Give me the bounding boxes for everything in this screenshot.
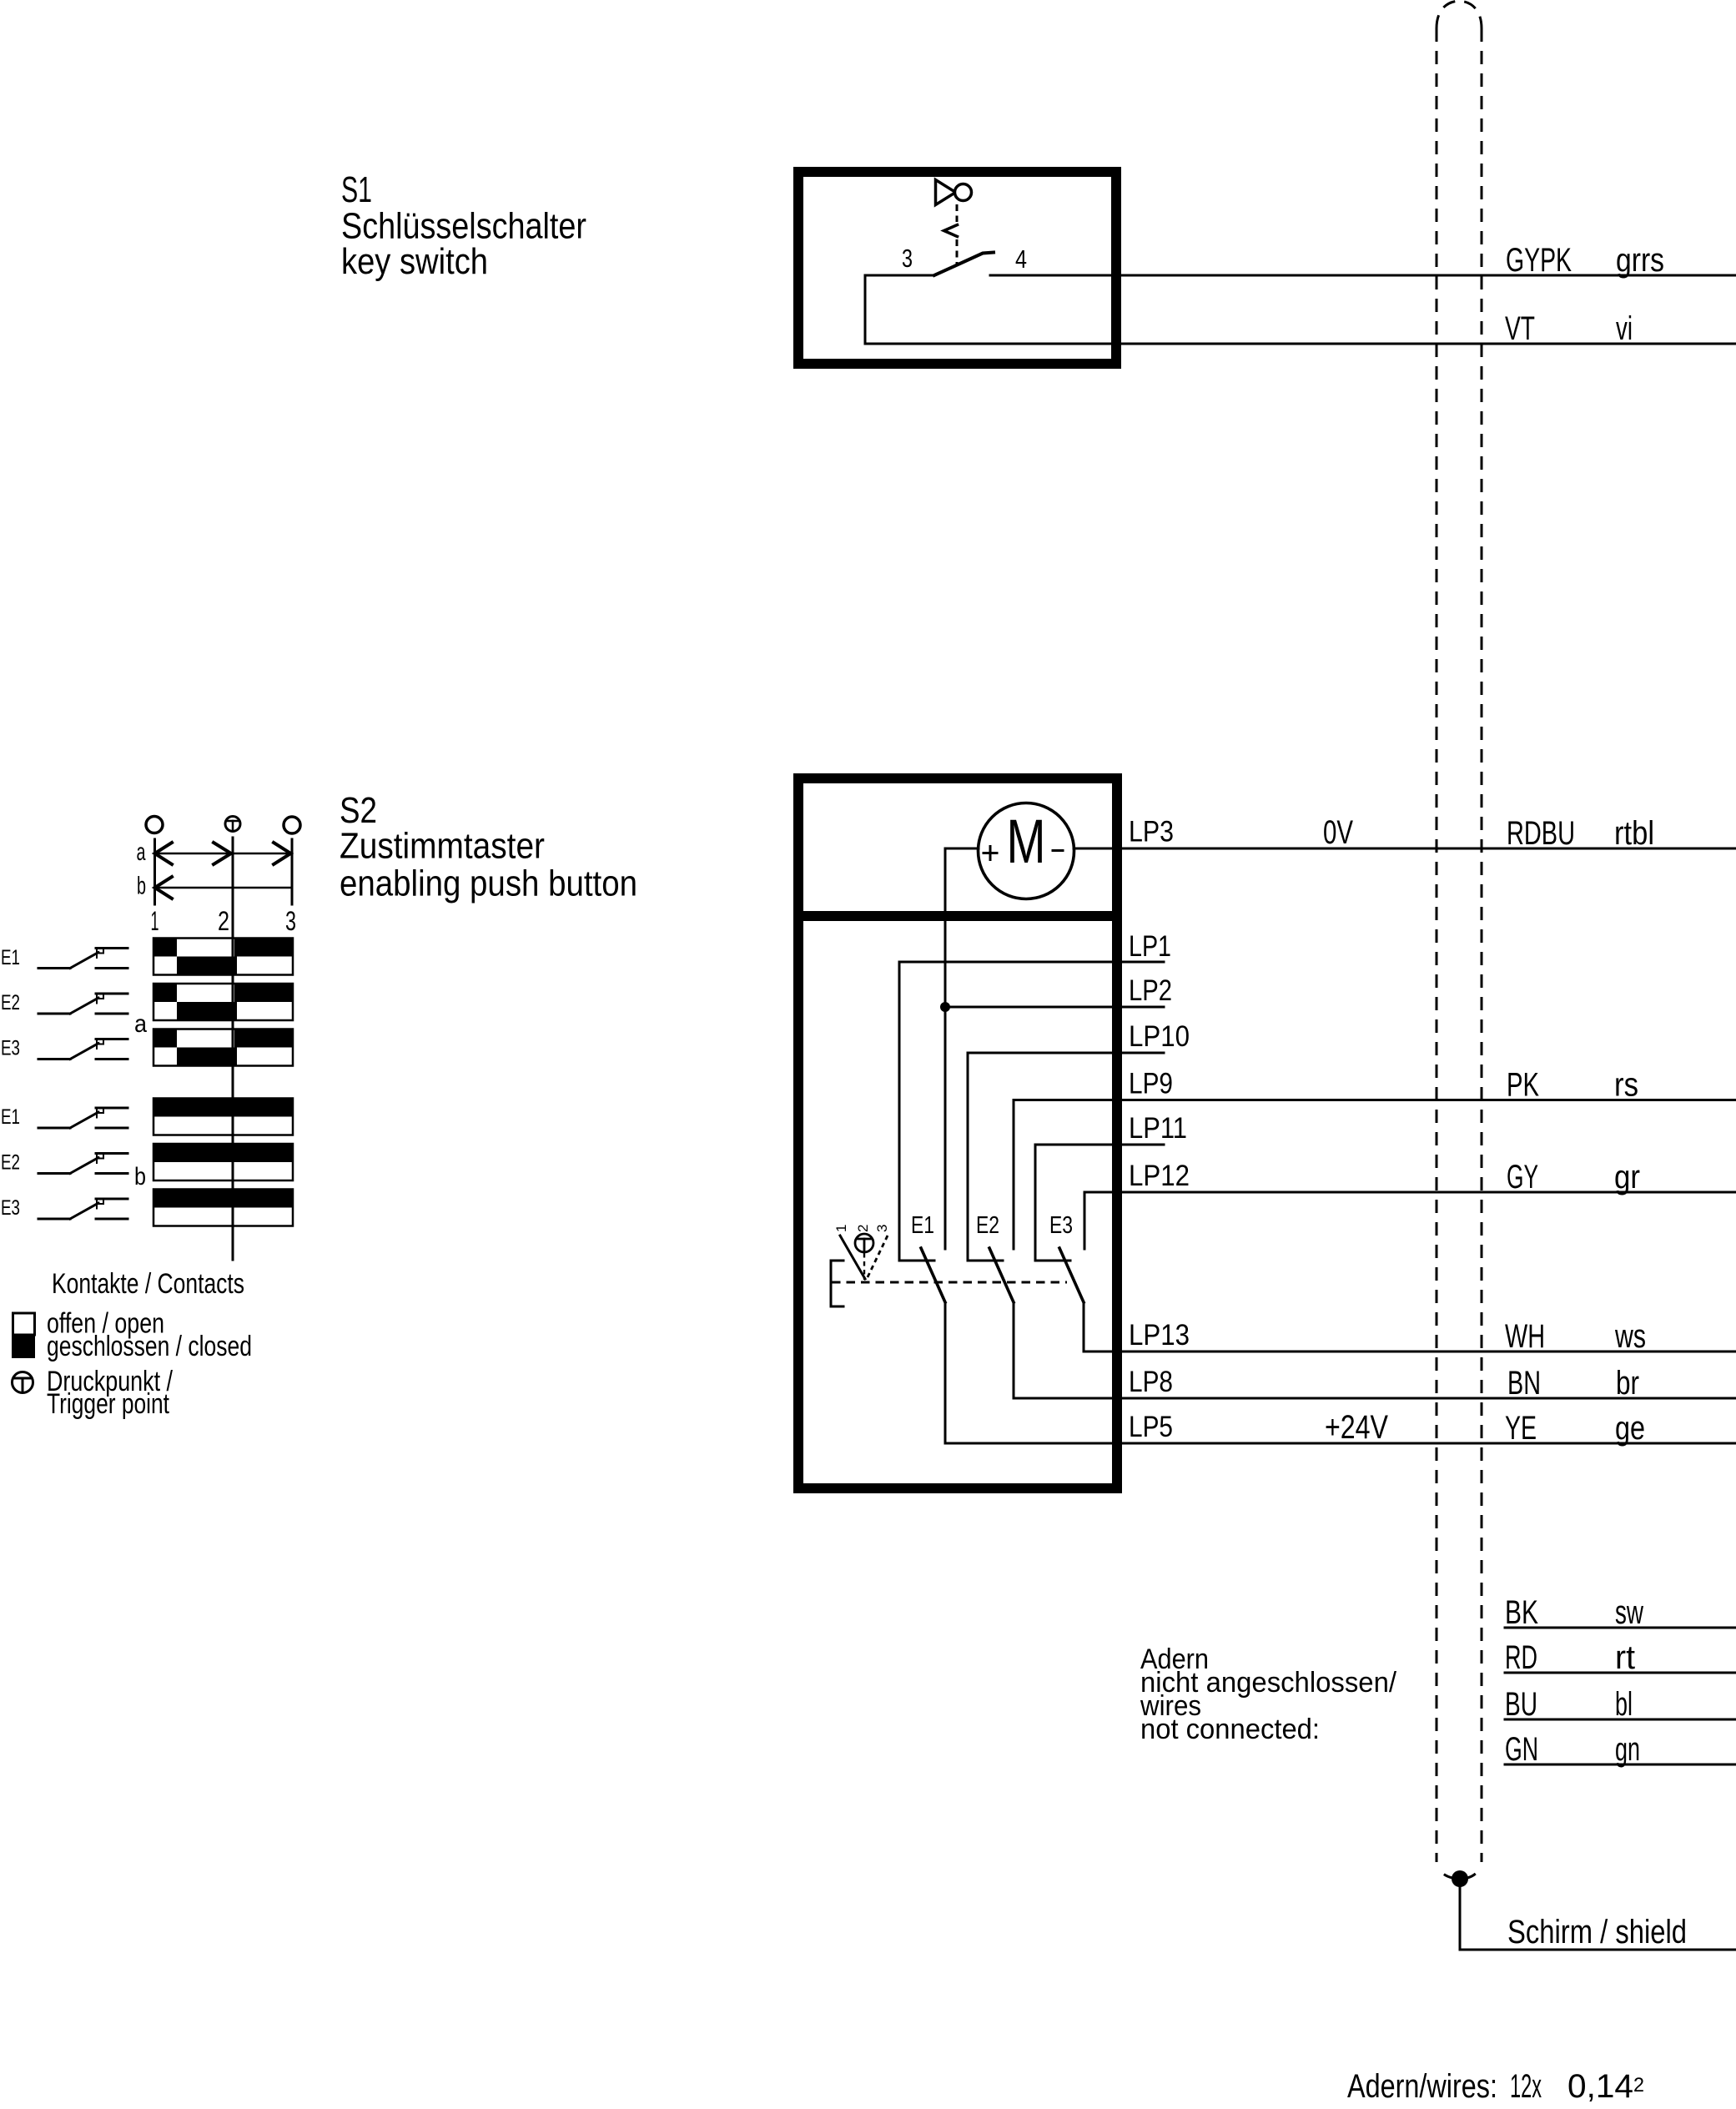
svg-text:12x: 12x: [1510, 2068, 1542, 2105]
key switch S1 enclosure box: [798, 172, 1116, 364]
unconnected wire BK: [1505, 1627, 1736, 1629]
svg-text:Adern/wires:: Adern/wires:: [1347, 2068, 1497, 2105]
contact symbol E3 (group b): [38, 1199, 128, 1219]
contact blade E2: [989, 1248, 1014, 1302]
legend trigger point symbol: [13, 1372, 33, 1393]
svg-text:LP8: LP8: [1129, 1366, 1173, 1398]
svg-text:rs: rs: [1614, 1067, 1638, 1104]
contact state bar row E2 group a: [153, 984, 293, 1020]
pin stub LP11: [1035, 1145, 1164, 1261]
svg-text:bl: bl: [1615, 1686, 1633, 1723]
wire label YE ge: [1505, 1410, 1645, 1447]
contact symbol E2 (group a): [38, 994, 128, 1014]
svg-text:4: 4: [1015, 244, 1027, 274]
wire label GYPK grrs: [1506, 242, 1664, 279]
wire WH (LP13) from E3 blade to right edge: [1084, 1302, 1736, 1351]
svg-text:b: b: [134, 1163, 146, 1190]
svg-text:3: 3: [902, 244, 913, 273]
wire GY (LP12) with internal vertical to E3: [1084, 1192, 1736, 1249]
svg-text:Schirm / shield: Schirm / shield: [1507, 1914, 1687, 1950]
wire VT from S1 to right edge: [865, 343, 1736, 345]
svg-text:YE: YE: [1505, 1410, 1537, 1447]
wire RDBU (LP3 0V) from motor to right edge: [1074, 848, 1736, 850]
svg-text:1: 1: [833, 1225, 849, 1232]
svg-text:LP2: LP2: [1129, 974, 1172, 1007]
contact blade E1: [921, 1248, 945, 1302]
svg-text:GYPK: GYPK: [1506, 242, 1572, 279]
wire YE (LP5 +24V) from E1 blade to right edge: [945, 1302, 1736, 1443]
wire label RDBU rtbl: [1507, 815, 1654, 852]
legend closed state square: [12, 1336, 35, 1358]
svg-text:ge: ge: [1615, 1410, 1645, 1447]
svg-text:RD: RD: [1505, 1639, 1537, 1676]
svg-text:E3: E3: [1049, 1212, 1073, 1239]
pin stub LP1: [899, 962, 1164, 1261]
contact state bar row E1 group a: [153, 939, 293, 975]
travel diagram position 1 circle: [146, 817, 163, 833]
svg-text:2: 2: [855, 1225, 871, 1232]
shield junction node: [1452, 1870, 1468, 1887]
svg-text:vi: vi: [1616, 310, 1633, 347]
svg-text:LP10: LP10: [1129, 1020, 1190, 1053]
svg-text:LP13: LP13: [1129, 1319, 1190, 1351]
svg-text:PK: PK: [1507, 1067, 1539, 1104]
wire label GY gr: [1507, 1159, 1640, 1195]
travel diagram tick line position 1: [153, 839, 156, 904]
svg-text:S1: S1: [341, 169, 372, 210]
cable note Adern/wires: 12x 0,14^2: [1347, 2068, 1644, 2105]
contact symbol E3 (group a): [38, 1039, 128, 1060]
actuator dashed lever position 3 line: [867, 1236, 888, 1279]
actuator bracket: [831, 1261, 843, 1306]
svg-text:b: b: [137, 873, 146, 900]
svg-text:BN: BN: [1507, 1365, 1541, 1402]
svg-text:0V: 0V: [1323, 814, 1353, 851]
contact symbol E1 (group b): [38, 1108, 128, 1128]
unconnected wire RD: [1505, 1672, 1736, 1674]
wire label BU bl: [1505, 1686, 1633, 1723]
svg-text:M: M: [1007, 807, 1046, 876]
travel arrow b: [155, 877, 293, 898]
pin stub LP2: [945, 1006, 1164, 1009]
wire label WH ws: [1505, 1318, 1646, 1355]
contact blade E3: [1059, 1248, 1084, 1302]
contact symbol E2 (group b): [38, 1154, 128, 1174]
svg-text:not connected:: not connected:: [1140, 1714, 1320, 1745]
S2 box compartment divider: [798, 911, 1117, 921]
wire label PK rs: [1507, 1067, 1638, 1104]
shield wire down from node: [1459, 1879, 1462, 1950]
motor M1 circle: [979, 803, 1074, 899]
wire Schirm / shield to right edge: [1460, 1949, 1736, 1951]
cable sheath top arch: [1437, 1, 1482, 28]
svg-text:Kontakte / Contacts: Kontakte / Contacts: [52, 1268, 244, 1300]
contact state bar row E3 group b: [153, 1190, 293, 1226]
svg-text:LP1: LP1: [1129, 930, 1171, 963]
not connected note text: [1140, 1643, 1396, 1745]
travel diagram centre line position 2: [232, 838, 234, 1260]
contact state bar row E1 group b: [153, 1099, 293, 1135]
travel diagram trigger point circle (position 2): [225, 817, 240, 832]
svg-text:3: 3: [285, 906, 296, 936]
svg-text:E2: E2: [1, 1151, 20, 1175]
svg-text:rt: rt: [1615, 1639, 1635, 1676]
svg-text:LP12: LP12: [1129, 1160, 1190, 1192]
wire GYPK from S1 contact 4 to right edge: [990, 274, 1736, 277]
unconnected wire BU: [1505, 1719, 1736, 1721]
unconnected wire GN: [1505, 1764, 1736, 1766]
wire label GN gn: [1505, 1731, 1640, 1768]
svg-text:WH: WH: [1505, 1318, 1545, 1355]
svg-text:LP3: LP3: [1129, 816, 1174, 848]
key symbol of S1: [936, 180, 972, 266]
wire label BN br: [1507, 1365, 1639, 1402]
wire label RD rt: [1505, 1639, 1635, 1676]
wire BN (LP8) from E2 blade to right edge: [1014, 1302, 1736, 1398]
svg-text:gn: gn: [1615, 1731, 1640, 1768]
legend open state square: [13, 1313, 35, 1335]
S1 internal wire from contact 3 down: [864, 275, 867, 344]
actuator trigger point circle: [855, 1234, 873, 1252]
svg-text:E1: E1: [1, 946, 20, 969]
pin stub LP10: [968, 1053, 1164, 1261]
svg-text:E2: E2: [976, 1212, 999, 1239]
wire PK (LP9) with internal vertical to E2: [1014, 1100, 1736, 1250]
actuator lever position 1 line: [840, 1236, 865, 1279]
+24V vertical wire from motor lead down to E1 contact: [944, 848, 947, 1249]
junction node LP2 on +24V wire: [940, 1002, 950, 1012]
svg-text:0,14: 0,14: [1567, 2068, 1633, 2105]
svg-text:LP9: LP9: [1129, 1068, 1173, 1100]
svg-text:grrs: grrs: [1616, 242, 1664, 279]
svg-text:RDBU: RDBU: [1507, 815, 1575, 852]
svg-text:key switch: key switch: [341, 241, 488, 282]
svg-text:br: br: [1616, 1365, 1639, 1402]
svg-text:E3: E3: [1, 1037, 20, 1060]
enabling push button S2 enclosure box: [798, 778, 1117, 1488]
cable sheath bottom convergence: [1437, 1863, 1452, 1878]
motor left lead wire: [945, 848, 979, 850]
svg-text:E1: E1: [1, 1105, 20, 1129]
S1 contact 3 terminal: [865, 274, 934, 277]
contact symbol E1 (group a): [38, 949, 128, 969]
motor plus sign: [984, 847, 997, 860]
cable sheath dashed outline right side: [1481, 28, 1483, 1862]
svg-text:E3: E3: [1, 1196, 20, 1220]
svg-text:VT: VT: [1505, 310, 1535, 347]
actuator coupling dashed line: [832, 1281, 1067, 1284]
svg-text:Zustimmtaster: Zustimmtaster: [340, 826, 545, 867]
svg-text:GN: GN: [1505, 1731, 1538, 1768]
wire label BK sw: [1505, 1594, 1643, 1631]
cable sheath dashed outline left side: [1436, 28, 1438, 1862]
travel diagram position 3 circle: [284, 817, 300, 833]
svg-text:3: 3: [874, 1225, 890, 1232]
svg-text:2: 2: [218, 906, 229, 936]
travel diagram tick line position 3: [291, 839, 294, 904]
contact state bar row E2 group b: [153, 1144, 293, 1180]
svg-text:E2: E2: [1, 991, 20, 1014]
wire label VT vi: [1505, 310, 1633, 347]
svg-text:sw: sw: [1615, 1594, 1643, 1631]
svg-text:a: a: [137, 838, 146, 866]
actuator trigger dashed vertical (position 2): [863, 1253, 865, 1280]
svg-text:1: 1: [151, 906, 159, 936]
svg-text:enabling push button: enabling push button: [340, 863, 637, 904]
svg-text:GY: GY: [1507, 1159, 1538, 1195]
key switch S1 title: [341, 169, 586, 282]
contact state bar row E3 group a: [153, 1029, 293, 1066]
svg-text:BK: BK: [1505, 1594, 1538, 1631]
motor minus sign: [1053, 849, 1063, 852]
svg-text:rtbl: rtbl: [1614, 815, 1654, 852]
enabling push button S2 title: [340, 790, 637, 904]
svg-text:BU: BU: [1505, 1686, 1537, 1723]
svg-text:LP5: LP5: [1129, 1411, 1173, 1443]
svg-text:geschlossen / closed: geschlossen / closed: [47, 1331, 252, 1362]
svg-text:+24V: +24V: [1325, 1409, 1388, 1446]
svg-text:E1: E1: [911, 1212, 934, 1239]
svg-text:ws: ws: [1614, 1318, 1646, 1355]
svg-text:LP11: LP11: [1129, 1112, 1187, 1145]
svg-text:gr: gr: [1614, 1159, 1640, 1195]
svg-text:2: 2: [1633, 2074, 1644, 2096]
svg-text:Trigger point: Trigger point: [47, 1388, 169, 1420]
travel arrow a: [155, 843, 293, 864]
S1 switch blade (contact 3-4): [934, 253, 994, 276]
svg-text:a: a: [134, 1010, 147, 1038]
